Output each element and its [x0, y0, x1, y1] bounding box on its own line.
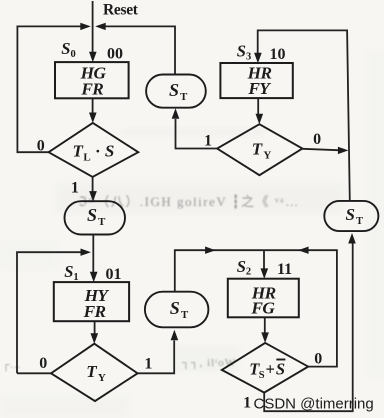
wire S2 box to diamond4	[264, 317, 266, 333]
svg-text:FY: FY	[247, 79, 271, 98]
svg-text:FR: FR	[80, 79, 103, 98]
oval ST right	[324, 201, 378, 231]
svg-text:1: 1	[71, 180, 79, 197]
svg-text:01: 01	[106, 266, 122, 283]
svg-text:┐┐, ilᵗoW: ┐┐, ilᵗoW	[181, 357, 236, 370]
wire S0 box to diamond1	[92, 99, 94, 113]
wire S1 box to diamond3	[94, 321, 96, 334]
decision diamond4 TS+Sbar	[222, 343, 308, 393]
decision diamond2 TY	[217, 124, 302, 175]
oval ST top-center	[146, 75, 206, 108]
svg-text:CSDN @timerring: CSDN @timerring	[254, 396, 374, 413]
wire junction down into S2 box	[263, 250, 265, 272]
svg-text:FR: FR	[83, 302, 106, 321]
box S3 HR/FY	[220, 63, 292, 98]
svg-text:0: 0	[39, 355, 47, 372]
wire Reset vertical into S0	[92, 1, 94, 53]
wire diamond3 0-branch	[17, 372, 51, 374]
svg-text:TS+S: TS+S	[249, 360, 285, 382]
wire: top ST oval up and left into top junction	[106, 26, 176, 74]
wire diamond2 1-branch left and up into top ST oval	[176, 119, 218, 149]
wire right ST oval top up, left to S3 entry	[258, 30, 350, 201]
svg-text:0: 0	[313, 131, 321, 148]
decision diamond3 TY	[51, 344, 138, 401]
decision diamond1 TL.S	[49, 123, 139, 177]
wire diamond4 1-branch bottom right up into right ST oval	[264, 244, 353, 412]
oval ST mid-left	[65, 201, 126, 234]
box S0 HG/FR	[55, 62, 129, 98]
bleed-through watermark band	[2, 194, 300, 372]
svg-text:11: 11	[277, 261, 292, 278]
box S2 HR/FG	[228, 279, 299, 318]
wire lower ST oval up and right to S2 entry, on to right feedback	[175, 250, 337, 366]
svg-text:FG: FG	[250, 299, 275, 318]
svg-text:00: 00	[107, 46, 123, 63]
wire S3 box to diamond2	[257, 98, 259, 114]
svg-text:┌…: ┌…	[2, 359, 21, 372]
wire diamond2 0-branch right into vertical	[302, 149, 338, 150]
box S1 HY/FR	[54, 282, 129, 321]
wire: S1 feedback junction horizontal	[17, 252, 81, 373]
wire ST oval to S1 box	[92, 235, 94, 273]
svg-text:1: 1	[144, 356, 152, 373]
wire diamond1 to ST oval	[92, 177, 94, 192]
wire loop: diamond1 0-branch up to top junction	[17, 26, 80, 152]
oval ST lower-mid	[145, 292, 209, 328]
svg-text:Reset: Reset	[103, 2, 139, 19]
svg-text:0: 0	[37, 137, 45, 154]
svg-text:1: 1	[204, 133, 212, 150]
svg-text:0: 0	[314, 351, 322, 368]
wire diamond3 1-branch up into ST oval	[138, 341, 175, 374]
svg-text:TL · S: TL · S	[73, 142, 115, 164]
svg-text:10: 10	[270, 46, 286, 63]
svg-text:1: 1	[243, 395, 251, 412]
